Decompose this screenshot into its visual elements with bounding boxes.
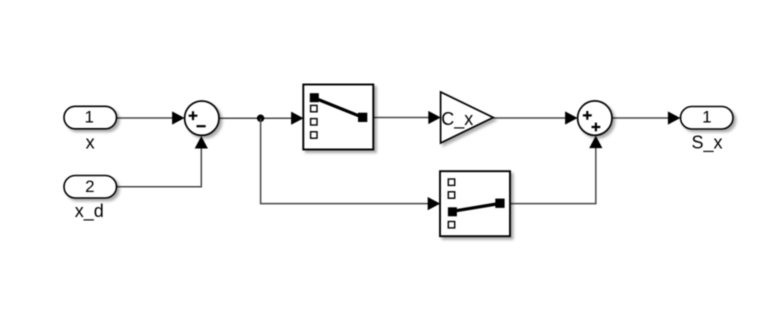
- wire inport1 to sum1: [117, 111, 185, 124]
- inport 1: [64, 106, 117, 129]
- wire branch junction to selector2: [261, 118, 441, 210]
- sum block Sum2: [578, 101, 612, 135]
- svg-text:C_x: C_x: [441, 109, 473, 130]
- svg-text:2: 2: [85, 177, 94, 196]
- svg-text:1: 1: [84, 107, 93, 126]
- svg-text:S_x: S_x: [691, 133, 722, 154]
- svg-text:1: 1: [702, 108, 711, 127]
- sum block Sum1: [185, 101, 219, 135]
- inport 2: [64, 176, 117, 199]
- selector block Selector2: [440, 171, 510, 236]
- wire selector2 to sum2 lower input: [510, 136, 602, 204]
- selector block Selector1: [303, 85, 373, 150]
- svg-text:x_d: x_d: [75, 201, 104, 222]
- gain block C_x: [441, 92, 494, 143]
- wire sum2 to outport: [612, 111, 680, 124]
- junction node: [257, 115, 264, 122]
- outport 1: [681, 107, 734, 130]
- svg-text:x: x: [86, 133, 95, 153]
- wire sum1 to selector1: [219, 112, 304, 125]
- wire selector1 to gain: [373, 111, 441, 124]
- wire gain to sum2: [493, 111, 577, 124]
- wire inport2 to sum1 lower input: [117, 136, 208, 187]
